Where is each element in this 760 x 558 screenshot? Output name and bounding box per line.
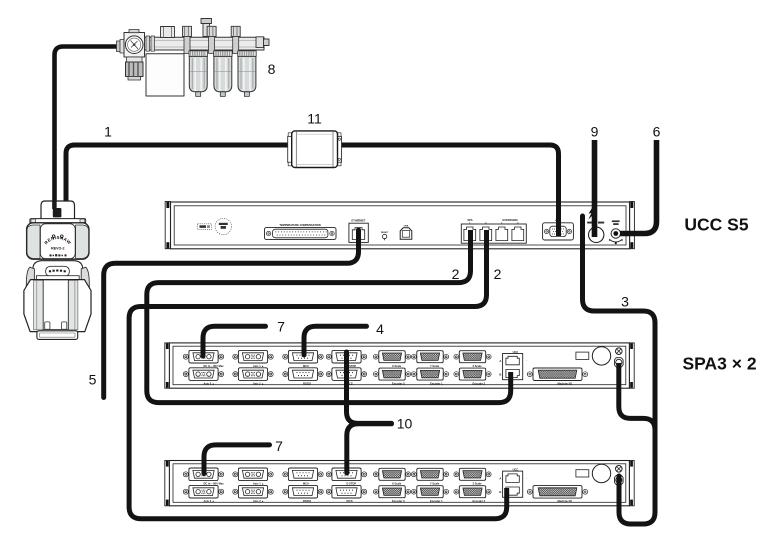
- UCC round head PSU connector: [587, 222, 592, 224]
- svg-text:2: 2: [494, 266, 502, 282]
- wire cable 9 into round head-PSU connector: [592, 140, 598, 237]
- wire cable 10 E-STOP Y-cable upper branch: [347, 352, 392, 423]
- filter clamp 1: [183, 26, 192, 53]
- insertion arrow near connector 9: [588, 206, 595, 220]
- head body right lug: [76, 225, 89, 259]
- JUNCTION-BOX-11: [288, 131, 342, 168]
- svg-text:EXPANSION: EXPANSION: [502, 218, 517, 222]
- adaptor right flange: [337, 136, 341, 162]
- svg-text:7: 7: [277, 319, 285, 335]
- wire cable 3 UCC to SPA3 chain: [583, 216, 656, 524]
- manifold bar: [145, 37, 265, 50]
- adaptor left flange: [288, 136, 292, 162]
- head face plate: [40, 224, 75, 259]
- head right ear: [81, 267, 89, 289]
- wire cable 7 power stub into SPA3 unit2: [204, 445, 270, 474]
- svg-text:7: 7: [275, 438, 283, 454]
- svg-text:RESET: RESET: [381, 232, 389, 234]
- head screw icons: [52, 235, 63, 239]
- svg-text:6: 6: [653, 124, 661, 140]
- wire cable 7 power stub into SPA3 unit1: [203, 326, 266, 356]
- head bottom plate: [37, 331, 78, 340]
- head neck bar: [36, 276, 79, 281]
- svg-text:5: 5: [89, 372, 97, 388]
- head top connector block: [41, 201, 75, 219]
- svg-text:ETHERNET: ETHERNET: [352, 219, 366, 223]
- REVO-HEAD: [24, 201, 91, 339]
- regulator knob: [127, 57, 143, 62]
- svg-text:2: 2: [452, 266, 460, 282]
- wire cable 2 SPA port1 to SPA3 unit1: [147, 230, 511, 403]
- CABLES-LAYER: [55, 47, 657, 525]
- manifold left clamp block: [161, 27, 175, 38]
- head neck: [33, 261, 83, 280]
- head knuckle centre: [43, 280, 68, 330]
- wire cable 4 MCU stub into SPA3 unit1: [304, 326, 367, 355]
- wire cable 10 E-STOP Y-cable lower branch: [347, 424, 392, 473]
- svg-text:SPA3 × 2: SPA3 × 2: [682, 354, 756, 374]
- regulator body: [124, 33, 145, 58]
- svg-text:TEMPERATURE COMPENSATION: TEMPERATURE COMPENSATION: [279, 223, 320, 227]
- svg-text:4: 4: [376, 321, 384, 337]
- UCC S5 controller right rack ear: [630, 202, 635, 249]
- svg-text:1: 1: [104, 124, 112, 140]
- UCC-PANEL: [165, 202, 634, 249]
- UCC S5 controller chassis panel: [171, 202, 630, 249]
- svg-text:9: 9: [591, 124, 599, 140]
- regulator gauge: [125, 36, 143, 54]
- UCC certification label: [198, 224, 212, 230]
- SPA3 amplifier unit 2: [165, 461, 634, 506]
- UCC 48V power inlet: [612, 220, 620, 222]
- manifold top T-fitting: [203, 23, 210, 37]
- service box: [146, 54, 184, 96]
- head icon row: [50, 254, 67, 256]
- AIR-FILTER-UNIT: [117, 19, 270, 97]
- svg-text:8: 8: [268, 61, 276, 77]
- wire air tube from filter unit to head: [55, 47, 122, 206]
- wire cable 5 ethernet: [104, 230, 359, 398]
- svg-text:10: 10: [397, 416, 413, 432]
- wire SPA3 unit1 link cable to chain: [619, 363, 655, 430]
- head knuckle body: [24, 280, 91, 332]
- manifold right outlet fitting: [256, 37, 264, 48]
- head mouth slot: [46, 266, 70, 276]
- wire cable 6 power into UCC: [620, 140, 657, 234]
- head left ear: [26, 267, 34, 289]
- head air connector inside block: [53, 208, 62, 217]
- head body left lug: [27, 225, 40, 259]
- TEXT-LABELS: [89, 61, 757, 454]
- svg-text:11: 11: [307, 111, 322, 127]
- filter bowl 1: [189, 51, 208, 97]
- air inlet fitting: [117, 41, 121, 52]
- adaptor body 11: [292, 131, 338, 168]
- wire cable 2 SPA port2 to SPA3 unit2: [129, 230, 507, 519]
- svg-text:SPA: SPA: [467, 218, 472, 222]
- SPA3 amplifier unit 1: [165, 343, 634, 388]
- svg-text:3: 3: [621, 294, 629, 310]
- head body: [27, 223, 89, 259]
- svg-text:REVO-2: REVO-2: [51, 246, 64, 250]
- UCC made-in-UK roundel: [215, 218, 231, 234]
- wire cable 1 head to UCC HEAD port via adaptor: [66, 145, 559, 236]
- head mounting flange: [30, 219, 86, 223]
- SPA-PANELS: [165, 343, 634, 506]
- svg-text:UCC S5: UCC S5: [684, 215, 748, 235]
- UCC S5 controller left rack ear: [165, 202, 170, 249]
